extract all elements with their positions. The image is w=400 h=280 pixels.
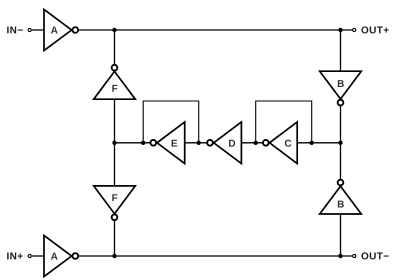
junction box-E right (197, 141, 201, 145)
inverter A top (44, 9, 78, 50)
junction bottom-left (112, 254, 116, 258)
terminal IN+ (28, 254, 31, 257)
wire IN- stub (32, 29, 44, 31)
wire right vertical (340, 30, 342, 256)
svg-text:C: C (284, 139, 291, 150)
svg-text:A: A (51, 25, 58, 36)
inverter F top (94, 65, 136, 99)
svg-text:A: A (51, 252, 58, 263)
svg-text:IN+: IN+ (6, 251, 23, 262)
svg-text:OUT−: OUT− (361, 251, 390, 262)
inverter A bottom (44, 235, 78, 276)
inverter F bottom (94, 186, 136, 220)
inverter D (207, 122, 241, 164)
junction top-left (112, 28, 116, 32)
wire top rail (79, 29, 353, 31)
svg-text:F: F (112, 84, 118, 95)
svg-text:B: B (337, 199, 344, 210)
junction box-E left (141, 141, 145, 145)
svg-text:E: E (171, 139, 178, 150)
junction mid-left (112, 141, 116, 145)
terminal OUT+ (353, 28, 356, 31)
junction box-C right (310, 141, 314, 145)
junction bottom-right (338, 254, 342, 258)
svg-text:B: B (337, 79, 344, 90)
wire mid rail (115, 142, 341, 144)
svg-text:D: D (228, 139, 235, 150)
junction mid-right (338, 141, 342, 145)
feedback box over C (256, 101, 312, 143)
svg-text:IN−: IN− (6, 25, 23, 36)
junction top-right (338, 28, 342, 32)
inverter C (263, 122, 297, 164)
inverter E (150, 122, 184, 164)
feedback box over E (143, 101, 199, 143)
terminal IN- (28, 28, 31, 31)
wire IN+ stub (32, 255, 44, 257)
svg-text:F: F (112, 193, 118, 204)
svg-text:OUT+: OUT+ (361, 25, 390, 36)
inverter B bottom (320, 180, 362, 214)
inverter B top (320, 71, 362, 105)
wire left vertical (114, 30, 116, 256)
terminal OUT- (353, 254, 356, 257)
junction box-C left (254, 141, 258, 145)
wire bottom rail (79, 255, 353, 257)
